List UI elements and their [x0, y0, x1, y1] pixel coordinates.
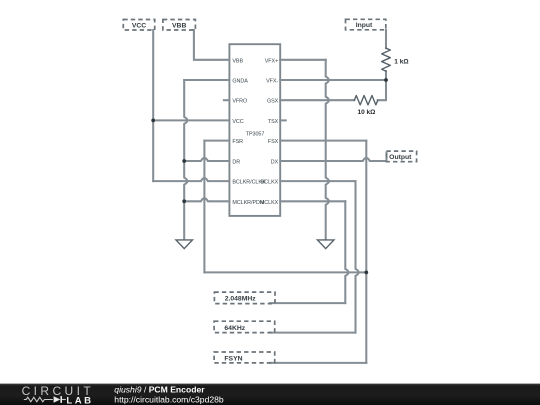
svg-text:VFRO: VFRO — [232, 99, 247, 105]
svg-text:64KHz: 64KHz — [224, 325, 245, 332]
wire VCC rail down to BCLKR row — [152, 120, 154, 181]
flag Input box — [346, 19, 386, 30]
wire GNDA vertical rail with bows at VCC and BCLKR rows — [184, 80, 187, 239]
svg-text:FSX: FSX — [268, 139, 279, 145]
svg-text:VFX-: VFX- — [266, 79, 278, 85]
wire 2.048MHz flag to MCLKX vertical — [270, 302, 345, 304]
resistor R1 1 kOhm vertical zigzag — [382, 48, 391, 71]
svg-text:BCLKX: BCLKX — [261, 180, 279, 186]
wire MCLKR/PDN pin to GNDA rail with hop over FSR vertical — [184, 198, 229, 201]
node GNDA-DR junction — [182, 159, 186, 163]
svg-text:10 kΩ: 10 kΩ — [358, 109, 376, 116]
resistor R2 10 kOhm horizontal zigzag — [354, 96, 378, 105]
IC U1 TP3057 body — [229, 44, 280, 216]
wire FSX pin horizontal — [280, 140, 366, 142]
svg-text:VCC: VCC — [132, 22, 146, 29]
svg-text:VFX+: VFX+ — [265, 58, 278, 64]
node GNDA-MCLKR junction — [182, 199, 186, 203]
wire VFX+ pin horizontal — [280, 59, 326, 61]
svg-text:VBB: VBB — [172, 22, 186, 29]
wire Input flag drop to R1 top — [385, 30, 387, 48]
junction dots — [151, 78, 388, 274]
svg-text:Input: Input — [356, 22, 373, 29]
flag 2.048MHz box — [214, 292, 275, 304]
wire BCLKX vertical down to 64KHz row with bow at bus — [356, 181, 359, 333]
svg-text:FSR: FSR — [232, 139, 243, 145]
wire R1 bottom lead to node — [385, 71, 387, 80]
svg-text:VBB: VBB — [232, 58, 243, 64]
svg-text:qiushi9 / PCM Encoder: qiushi9 / PCM Encoder — [114, 385, 205, 395]
IC pin labels — [232, 58, 278, 206]
svg-text:Output: Output — [389, 154, 412, 161]
flag labels — [132, 22, 412, 362]
pin stub TSX — [280, 119, 286, 121]
ground symbol left (GNDA rail) — [176, 240, 193, 249]
flag Output box — [386, 151, 416, 162]
wire VFX+ vertical to ground with bows at VFX-, GSX, BCLKX, MCLKX rows — [326, 60, 329, 239]
svg-text:GNDA: GNDA — [232, 79, 248, 85]
svg-text:MCLKX: MCLKX — [260, 200, 279, 206]
wire 64KHz flag to BCLKX vertical — [270, 332, 356, 334]
flag boxes dashed — [123, 19, 416, 363]
flag VBB box — [163, 20, 196, 31]
wire GNDA pin horizontal — [184, 79, 229, 81]
wire FSYN flag to FSX vertical — [270, 362, 366, 364]
svg-text:LAB: LAB — [66, 395, 93, 405]
footer bar — [0, 384, 540, 405]
wire MCLKX vertical down to 2.048MHz row with bow at bus — [345, 201, 348, 303]
pin stub VFRO — [224, 99, 230, 101]
svg-text:VCC: VCC — [232, 119, 243, 125]
svg-text:DR: DR — [232, 160, 240, 166]
wire MCLKX pin horizontal — [280, 200, 345, 202]
wire DX pin to Output flag with hop over FSX vertical — [280, 153, 386, 162]
wire GSX pin to R2 left lead — [280, 99, 354, 101]
svg-text:2.048MHz: 2.048MHz — [225, 296, 257, 303]
value labels — [358, 58, 409, 116]
node FSX bus junction — [364, 271, 368, 275]
wire FSR vertical down to bus — [203, 141, 205, 273]
wire R2 right lead up to node at R1 bottom — [378, 80, 386, 100]
wire VFX- pin to R1 bottom node — [280, 79, 386, 81]
flag 64KHz box — [214, 321, 275, 332]
wire bottom bus FSR to FSX node — [204, 271, 366, 273]
svg-text:TP3057: TP3057 — [246, 131, 265, 137]
svg-text:FSYN: FSYN — [224, 355, 242, 362]
svg-text:DX: DX — [271, 160, 279, 166]
wire FSX vertical down through bus junction to FSYN row — [365, 141, 367, 363]
wire VCC pin horizontal — [153, 119, 229, 121]
wire VCC flag drop — [152, 30, 154, 120]
svg-text:1 kΩ: 1 kΩ — [394, 58, 408, 65]
svg-text:GSX: GSX — [267, 99, 279, 105]
wire FSR pin — [204, 140, 229, 142]
ground symbol right (VFX+ line) — [317, 240, 334, 249]
flag FSYN box — [214, 352, 275, 363]
CircuitLab logo diode symbol — [54, 396, 61, 402]
svg-text:TSX: TSX — [268, 119, 279, 125]
wire BCLKX pin horizontal — [280, 180, 355, 182]
node VCC junction — [151, 119, 155, 123]
svg-text:http://circuitlab.com/c3pd28b: http://circuitlab.com/c3pd28b — [114, 394, 224, 404]
CircuitLab logo resistor squiggle — [24, 397, 53, 402]
wire BCLKR/CLKX pin to VCC rail with hop over FSR vertical — [153, 178, 229, 181]
node R1/R2/VFX- junction — [384, 78, 388, 82]
wire DR pin to GNDA rail with hop over FSR vertical — [184, 158, 229, 161]
flag VCC box — [123, 20, 154, 31]
wire VBB flag to pin VBB — [194, 30, 230, 60]
